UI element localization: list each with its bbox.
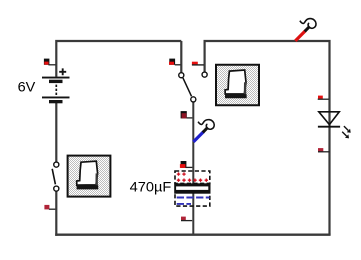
probe P2: curly lead xyxy=(198,120,214,130)
capacitor C1: red plus charges (row) xyxy=(177,179,208,182)
SPDT switch S2: common pivot circle xyxy=(191,97,196,102)
LED D1: cathode bar xyxy=(318,126,340,128)
wire: below left switch to bottom bus xyxy=(55,191,57,236)
terminal mark (S2 left contact): stub to wire xyxy=(175,64,181,66)
switch S1: open lever arm xyxy=(52,169,55,185)
switch S1: rocker bottom shadow bar xyxy=(77,185,99,189)
wire: left stub down to SPDT left contact xyxy=(180,41,182,73)
SPDT switch S2: lever arm xyxy=(183,78,192,97)
probe P1: black tip xyxy=(305,26,310,31)
switch S2: rocker right side shadow xyxy=(244,82,247,94)
wire: battery bottom lead down to switch top contact xyxy=(55,103,57,162)
SPDT switch S2: right contact circle xyxy=(202,72,207,77)
wire: right top bus with stub to SPDT right contact xyxy=(205,41,330,235)
wire: middle branch from SPDT common through capacitor to bottom bus xyxy=(192,102,194,235)
probe P2: black tip xyxy=(203,127,208,132)
switch S1: rocker right side shadow xyxy=(95,173,98,185)
terminal mark (capacitor - terminal): stub to wire xyxy=(181,220,192,222)
terminal mark (S2 right contact): red dot xyxy=(192,62,198,65)
capacitor C1: plate body (two plates with end caps) xyxy=(174,183,210,193)
battery B1: negative plate (thick) xyxy=(49,80,63,83)
svg-text:470µF: 470µF xyxy=(130,178,172,194)
wire: left branch top/vertical (battery top lead and top-left bus) xyxy=(56,41,181,77)
terminal mark (above voltage probe): stub to wire xyxy=(187,117,193,119)
wire: bottom bus xyxy=(55,234,330,236)
battery B1: dashed middle link xyxy=(55,85,57,97)
capacitor C1: bottom plate dashed frame (negative) xyxy=(175,194,210,206)
LED D1: light emission arrow 2 xyxy=(342,132,346,136)
switch S2: rocker bottom shadow bar xyxy=(225,94,247,98)
terminal mark (LED anode): stub to wire xyxy=(318,98,329,100)
terminal mark (LED anode): red dot xyxy=(318,96,323,99)
svg-text:6V: 6V xyxy=(18,78,36,94)
capacitor C1: blue minus charges row 1 xyxy=(177,197,210,199)
terminal mark (capacitor + terminal): stub to wire xyxy=(186,166,193,168)
terminal mark (battery + terminal): red dot xyxy=(44,62,48,65)
terminal mark (battery + terminal): black pad xyxy=(44,59,50,65)
SPDT switch S2: left contact circle xyxy=(179,73,184,78)
capacitor C1: white slot between plates xyxy=(176,186,208,190)
switch S1: rocker white face xyxy=(77,161,98,185)
terminal mark (capacitor - terminal): red dot xyxy=(181,217,186,221)
battery B1: second positive plate xyxy=(42,97,70,99)
battery B1 6V: positive plate xyxy=(42,77,70,79)
switch S1: bottom contact circle xyxy=(54,186,59,191)
terminal mark (S2 right contact): stub to wire xyxy=(192,64,204,66)
battery B1: plus polarity sign xyxy=(59,68,66,75)
terminal mark (above voltage probe): red dot xyxy=(182,113,187,118)
probe P1 (red crocodile clip on right top bus): shaft xyxy=(295,31,305,41)
terminal mark (capacitor + terminal): red dot xyxy=(180,164,186,168)
capacitor C1: blue minus charges row 2 (partial) xyxy=(177,203,191,205)
switch S1 (open, left branch): top contact circle xyxy=(54,162,59,167)
switch S2: icon box (dithered) xyxy=(216,65,259,106)
terminal mark (above voltage probe, middle branch): black pad xyxy=(181,111,187,118)
battery B1: second negative plate (thick) xyxy=(49,100,63,103)
terminal mark (LED cathode): stub to wire xyxy=(318,151,330,153)
capacitor C1 470uF: top plate dashed frame (positive) xyxy=(175,171,210,183)
terminal mark (below S1): stub to wire xyxy=(49,208,56,210)
terminal mark (capacitor + terminal): black pad xyxy=(181,161,187,168)
LED D1: anode triangle xyxy=(319,112,340,125)
probe P1: curly lead xyxy=(300,19,316,29)
switch S1: icon box (dithered) xyxy=(68,156,111,197)
terminal mark (below S1): red dot xyxy=(44,205,49,210)
switch S2: rocker white face xyxy=(225,70,246,94)
terminal mark (LED cathode): red dot xyxy=(318,148,323,152)
capacitor C1: red plus charges (top pair) xyxy=(177,172,186,175)
terminal mark (battery + terminal): stub to wire xyxy=(48,64,55,66)
terminal mark (S2 left contact): red dot xyxy=(169,62,174,65)
terminal mark (S2 left contact): black pad xyxy=(169,59,175,65)
LED D1: light emission arrow 1 xyxy=(344,126,348,130)
probe P2 (blue crocodile clip on middle branch): shaft xyxy=(193,132,203,142)
